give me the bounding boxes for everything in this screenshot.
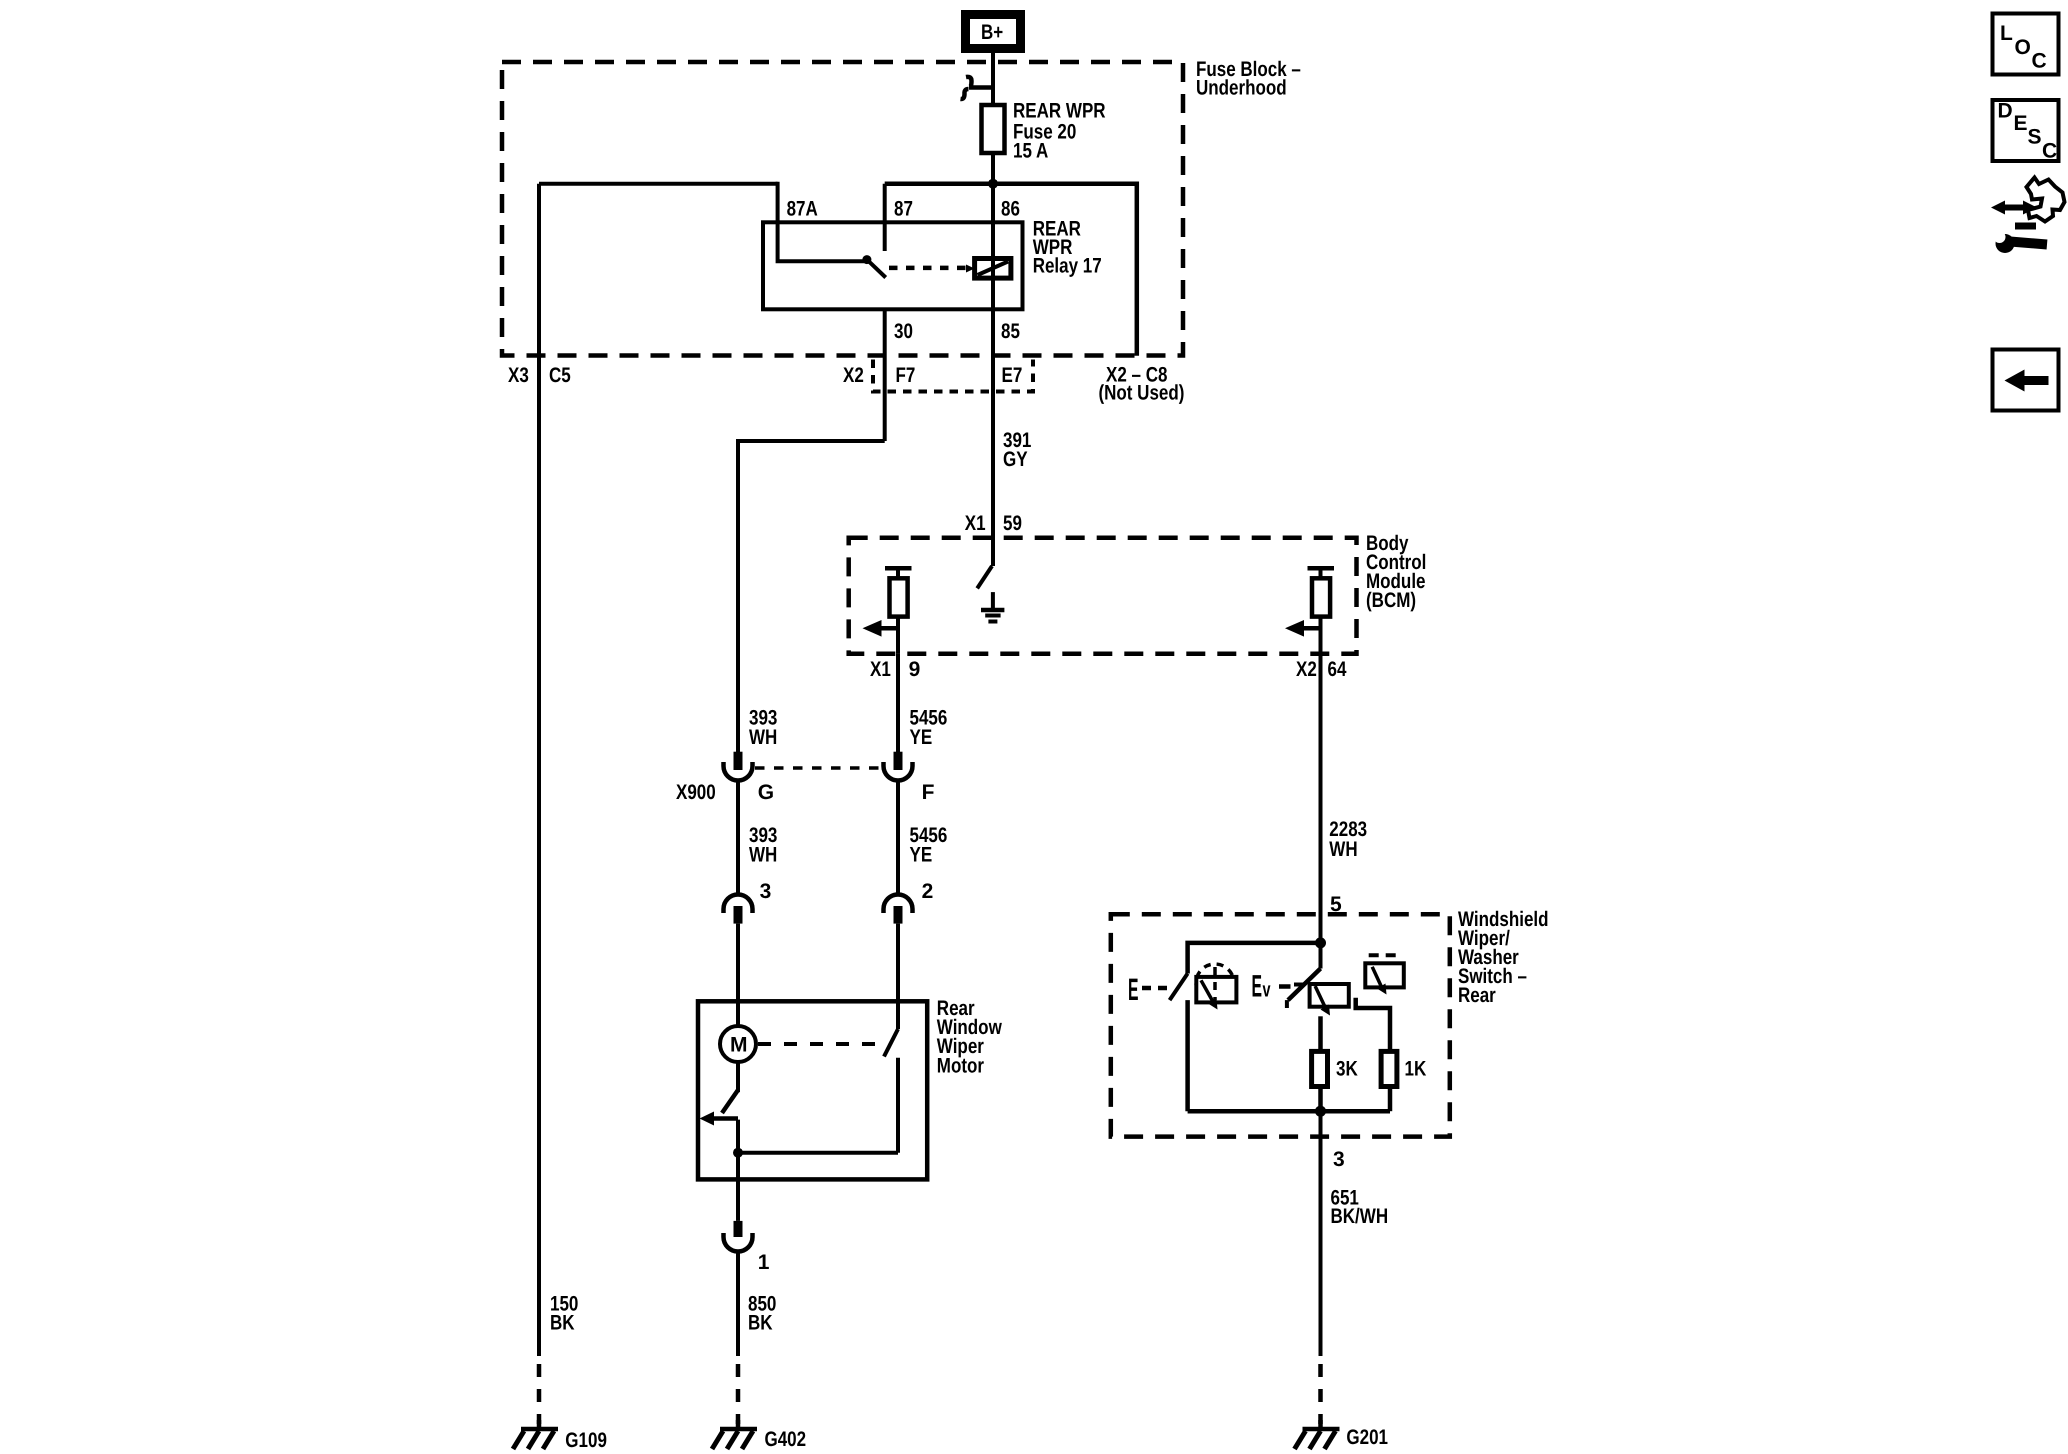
svg-text:9: 9 [909,658,921,681]
svg-text:64: 64 [1328,658,1347,681]
back button [1993,350,2059,411]
node switch feed junction [1315,937,1326,948]
ground G402 symbol [736,1420,741,1430]
svg-text:YE: YE [910,844,933,867]
relay outer box [885,184,1137,356]
SECTION: wiper switch [1111,654,1549,1356]
svg-text:(Not Used): (Not Used) [1099,382,1185,405]
SECTION: bcm [849,397,1427,681]
svg-text:E: E [1252,969,1263,1004]
wire B+ to fuse [991,52,995,106]
motor park switch dashed link [758,1042,880,1046]
wire park return to junction [738,1151,898,1155]
svg-text:M: M [730,1034,748,1057]
svg-text:C: C [2042,140,2057,163]
svg-text:Relay 17: Relay 17 [1033,255,1102,278]
connector X2 dashed outline [873,360,1033,392]
svg-text:WH: WH [1329,838,1357,861]
motor brush fixed contact with arrow [711,1116,738,1121]
svg-text:O: O [2015,36,2031,59]
connector X900 pin F male blade [894,752,903,770]
relay actuation arrow [966,265,975,273]
motor box [698,1001,927,1179]
wire fuse to relay [991,153,995,186]
wiper washer switch dashed box [1111,914,1450,1136]
svg-text:REAR WPR: REAR WPR [1013,100,1106,123]
svg-text:G201: G201 [1346,1426,1388,1449]
connector motor pin 3 male blade [734,906,743,924]
fuse REAR WPR Fuse 20 15A [982,105,1005,153]
power feed B+ box [966,15,1021,49]
connector X900 dashed link [755,766,882,770]
wire 391 GY fuse block to BCM [991,397,995,566]
connector X900 pin G socket [724,762,753,781]
LOC button [1993,14,2059,75]
wire 150 BK left drop X3-C5 to G109 [537,184,541,1356]
svg-text:C: C [2032,50,2047,73]
wire motor output to pin 1 [736,1120,740,1221]
clip terminal at fuse feed [966,77,993,88]
svg-text:X2: X2 [843,364,864,387]
svg-text:G: G [758,781,774,804]
BCM driver pin X2-64 body [1312,578,1330,616]
ground G109 symbol [537,1420,542,1430]
svg-text:59: 59 [1003,512,1022,535]
svg-text:87: 87 [894,198,913,221]
fuse block underhood dashed box [502,62,1183,356]
svg-text:G109: G109 [565,1429,607,1452]
BCM dashed box [849,538,1357,654]
svg-text:E: E [2014,112,2028,135]
wire junction to E contact [1188,943,1321,974]
svg-text:85: 85 [1001,320,1020,343]
wire pin 87 stub [883,184,887,251]
BCM driver pin X1-9 T-bar [885,566,912,571]
main switch pivot tail [1285,1000,1289,1008]
svg-text:S: S [2028,126,2042,149]
svg-text:WH: WH [749,726,777,749]
svg-text:v: v [1263,979,1271,1002]
washer switch body [1196,977,1236,1003]
motor M1 circle [720,1026,756,1062]
harness view icon outline [2027,178,2065,222]
LO wiper arm [1372,967,1382,988]
svg-text:X2: X2 [1296,658,1317,681]
SECTION: sidebar icons [1991,14,2065,411]
connector motor pin 3 socket [724,895,753,914]
wire 3K to bottom junction [1318,1087,1323,1112]
svg-text:GY: GY [1003,448,1028,471]
BCM ground switch blade [977,566,992,588]
relay actuation dashed link [889,266,974,271]
BCM internal ground symbol [981,608,1004,613]
SECTION: power and fuse block [502,15,1301,356]
svg-text:87A: 87A [787,198,818,221]
svg-text:15 A: 15 A [1013,140,1048,163]
washer switch center dashed stem [1213,967,1217,1000]
svg-text:X1: X1 [870,658,891,681]
E switch blade [1170,974,1188,1001]
BCM driver pin X2-64 T-bar [1308,566,1335,571]
svg-text:WH: WH [749,844,777,867]
wiper position dash before INT [1294,983,1304,987]
BCM driver pin X1-9 stem [896,568,900,578]
dashed wire to G201 [1318,1364,1323,1424]
wire 86 to 85 through coil [991,184,995,397]
wire motor pin 2 into box [896,924,900,1029]
connector motor pin 1 socket [724,1233,753,1252]
dashed wire to G402 [736,1364,741,1424]
connector X900 pin F socket [884,762,913,781]
svg-text:E: E [1128,972,1139,1007]
wire relay 87A feed to X3 connector [539,182,778,186]
svg-text:L: L [2000,22,2013,45]
wire 87A drop [778,182,867,262]
BCM driver pin X2-64 arrow [1302,626,1321,631]
wire INT branch to 3K [1318,1016,1323,1051]
svg-text:X900: X900 [676,781,716,804]
BCM driver pin X2-64 stem [1319,568,1323,578]
node motor return junction [733,1148,743,1158]
resistor 3K [1312,1051,1328,1086]
wire 850 BK motor to G402 [736,1252,740,1357]
wire park switch contact down [896,1058,900,1153]
main switch blade [1288,969,1321,1001]
LO wiper dashed top link [1369,953,1401,957]
svg-text:BK: BK [550,1312,575,1335]
svg-text:86: 86 [1001,198,1020,221]
svg-text:2: 2 [922,880,934,903]
svg-text:1K: 1K [1405,1058,1427,1081]
SECTION: left wires and connectors [539,184,947,1356]
svg-text:3: 3 [760,880,772,903]
motor park switch blade [884,1029,898,1057]
svg-text:X1: X1 [965,512,986,535]
washer switch wiper arm [1201,980,1214,1003]
harness view icon wrench [1996,234,2015,253]
washer pump dashed circle [1196,964,1234,1002]
svg-text:X3: X3 [508,364,529,387]
resistor 1K [1381,1051,1397,1086]
wire motor pin 3 into box [736,924,740,1027]
svg-text:3K: 3K [1336,1058,1358,1081]
SECTION: grounds [513,1293,1388,1453]
relay coil diagonal [978,262,1009,276]
connector motor pin 1 male blade [734,1221,743,1237]
relay switch blade [867,260,886,278]
wire pin 30 down [883,309,887,441]
wire 393 WH X900 to motor pin 3 [736,781,740,896]
dashed wire to G109 [537,1364,542,1424]
svg-text:Motor: Motor [937,1055,984,1078]
harness view icon lower bar [2015,223,2036,230]
ground G201 symbol [1318,1420,1323,1430]
svg-text:F: F [922,781,935,804]
BCM driver pin X1-9 arrow [879,626,898,631]
svg-text:G402: G402 [765,1428,807,1451]
svg-text:B+: B+ [981,21,1003,44]
svg-text:YE: YE [910,726,933,749]
svg-text:3: 3 [1333,1148,1345,1171]
wire 393 WH F7 to X900 [738,441,885,752]
DESC button [1993,100,2059,161]
wire 1K to bottom rail [1388,1087,1393,1112]
wire E branch down [1185,1000,1190,1111]
svg-text:Rear: Rear [1458,984,1496,1007]
BCM driver pin X2-64 output wire [1319,617,1323,654]
relay coil K17 [975,259,1011,279]
wire 2283 WH BCM pin 64 to switch [1319,654,1323,969]
svg-text:BK: BK [748,1312,773,1335]
svg-text:C5: C5 [549,364,571,387]
svg-text:1: 1 [758,1251,770,1274]
node fuse output to relay [988,179,998,189]
BCM internal ground stem [991,592,995,610]
back arrow [2021,376,2049,385]
svg-text:30: 30 [894,320,913,343]
svg-text:F7: F7 [896,364,916,387]
connector X900 pin G male blade [734,752,743,770]
SECTION: motor [698,997,1002,1356]
wire 5456 YE X900 to motor pin 2 [896,781,900,896]
svg-text:D: D [1998,100,2013,123]
motor brush switch blade [722,1090,738,1113]
node switch output junction [1315,1106,1326,1117]
switch bottom rail [1188,1109,1390,1114]
BCM driver pin X1-9 output wire [896,617,900,654]
wire switch output pin 3 [1319,1111,1323,1356]
BCM driver pin X1-9 body [890,578,908,616]
wire motor armature down [736,1062,740,1092]
E position dashed link [1142,986,1151,991]
INT wiper arm [1315,986,1326,1009]
wire 5456 YE BCM pin 9 to X900 F [896,654,900,752]
LO wiper switch body [1365,963,1404,987]
Ev position dash [1279,984,1291,989]
relay inner box U4 [763,222,1023,309]
svg-text:Underhood: Underhood [1196,77,1287,100]
connector motor pin 2 male blade [894,906,903,924]
harness view icon double arrow [2002,205,2026,211]
relay switch pivot node [862,255,871,264]
wire LO branch step to 1K [1356,998,1390,1052]
svg-text:E7: E7 [1002,364,1023,387]
connector motor pin 2 socket [884,895,913,914]
SECTION: relay [508,179,1184,441]
INT wiper switch body [1310,984,1349,1007]
svg-text:(BCM): (BCM) [1366,589,1416,612]
svg-text:BK/WH: BK/WH [1331,1205,1389,1228]
